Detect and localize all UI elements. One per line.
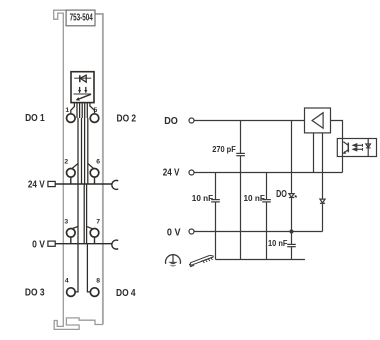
stub terminal 2 to 24V rail [70,177,72,184]
wire to terminal 2 [72,118,78,169]
svg-text:DO 4: DO 4 [116,288,136,299]
stub terminal 3 to 0V rail [70,237,72,244]
svg-text:24 V: 24 V [163,167,180,178]
wire to terminal 3 [72,184,78,229]
svg-text:8: 8 [96,278,100,285]
female connector arc 0V [112,240,118,249]
svg-text:10 nF: 10 nF [192,194,214,203]
terminal 7 [90,229,99,238]
svg-text:5: 5 [94,107,98,114]
terminal 3 [67,229,76,238]
wire U2 left pin to 24V rail [313,133,315,173]
wire to terminal 8 [87,244,90,292]
label box 753-504 [66,10,95,26]
status indicator box U1 [71,72,94,103]
diode D3 DO output with wire [289,121,294,232]
svg-text:0 V: 0 V [32,239,45,250]
capacitor C3 10 nF [262,173,271,260]
module body outline 753-504 [54,10,103,329]
optocoupler U3 [337,139,376,157]
wire segment band C [83,184,85,244]
wire to terminal 1 [71,103,75,114]
capacitor C1 270 pF [236,121,245,260]
svg-text:DO: DO [276,189,287,200]
wire U2 output to optocoupler [331,121,343,139]
terminal 5 [90,114,99,123]
driver amplifier U2 [305,108,331,133]
terminal 1 [67,114,76,123]
svg-text:7: 7 [96,218,100,225]
wire to terminal 4 [75,244,78,292]
24V field supply rail through module [48,177,118,189]
node 0V terminal circle [189,229,194,234]
node 24V terminal circle [189,170,194,175]
junction node on 0V rail [289,229,293,233]
LED inside U3 [366,144,371,148]
capacitor C4 10 nF [287,232,296,260]
wire 0V rail [55,243,112,245]
svg-text:24 V: 24 V [28,180,45,191]
wire segment band A [76,103,78,118]
svg-text:2: 2 [64,158,68,165]
diode D4 freewheeling with wire [320,133,325,232]
terminal 2 [67,169,76,178]
wire segment band B [81,118,83,184]
svg-text:DO 1: DO 1 [25,113,45,124]
phototransistor inside U3 [343,139,349,157]
0V field supply rail through module [48,237,118,249]
wire 0V rail [194,231,292,233]
wire bundle from indicator box to terminals [71,103,95,292]
svg-text:DO 3: DO 3 [25,288,45,299]
male connector square 24V [48,181,55,186]
svg-text:*: * [294,193,297,202]
terminal 4 [67,288,76,297]
svg-text:4: 4 [65,278,69,285]
stub terminal 7 to 0V rail [94,237,96,244]
wire DO rail [194,120,305,122]
svg-text:1: 1 [65,107,69,114]
light arrows inside U3 [353,144,363,151]
terminal 6 [90,169,99,178]
earth ground symbol [166,254,181,267]
wire 24V rail [55,183,112,185]
male connector square 0V [48,241,55,246]
svg-text:3: 3 [64,218,68,225]
svg-text:DO: DO [164,116,178,127]
female connector arc 24V [112,180,118,189]
DIN carrier rail symbol [189,255,213,266]
status LED D2 inside box [74,87,92,101]
wire to terminal 7 [87,184,93,229]
wire optocoupler emitter to 24V rail [342,157,344,173]
svg-text:270 pF: 270 pF [212,145,236,154]
wire diode branch corner to junction [292,231,323,233]
wire internal shield bus [216,259,306,261]
wire to terminal 5 [90,103,95,114]
svg-text:6: 6 [96,158,100,165]
stub terminal 6 to 24V rail [94,177,96,184]
capacitor C2 10 nF [211,173,220,260]
wire 24V rail [194,172,343,174]
svg-text:10 nF: 10 nF [268,239,287,248]
svg-text:DO 2: DO 2 [117,113,137,124]
wire to terminal 6 [88,118,94,168]
terminal 8 [90,288,99,297]
suppressor diode D1 inside box [74,75,91,82]
node DO terminal circle [189,118,194,123]
svg-text:753-504: 753-504 [70,13,93,24]
svg-text:0 V: 0 V [167,227,181,238]
svg-text:10 nF: 10 nF [244,194,266,203]
